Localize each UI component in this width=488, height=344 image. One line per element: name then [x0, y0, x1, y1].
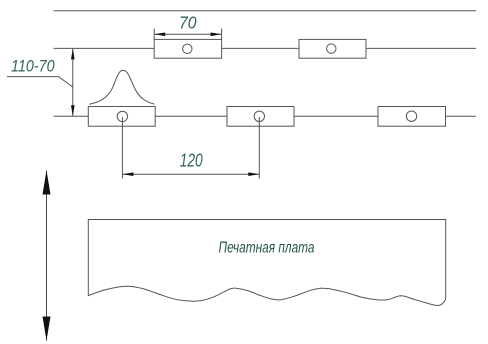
svg-text:120: 120: [180, 150, 203, 170]
svg-text:70: 70: [179, 12, 197, 32]
svg-text:110-70: 110-70: [11, 56, 55, 75]
svg-text:Печатная плата: Печатная плата: [219, 239, 315, 256]
